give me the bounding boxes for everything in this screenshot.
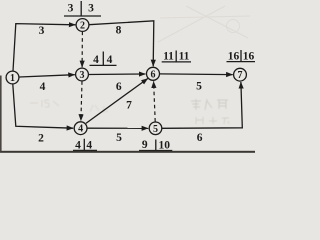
dummy dashed edge 5-6 bbox=[154, 81, 156, 121]
svg-text:4: 4 bbox=[107, 54, 113, 66]
wire edge 4-5 bbox=[87, 127, 148, 129]
svg-text:1: 1 bbox=[10, 73, 15, 84]
svg-text:5: 5 bbox=[153, 124, 158, 135]
dummy dashed edge 3-4 bbox=[81, 81, 82, 121]
node 7 bbox=[234, 68, 247, 81]
svg-text:16: 16 bbox=[243, 50, 255, 62]
time label 16|16 above node 7 bbox=[227, 50, 256, 62]
wire edge 1-3 bbox=[19, 75, 75, 77]
svg-text:4: 4 bbox=[93, 54, 99, 66]
svg-text:4: 4 bbox=[78, 124, 83, 135]
node 3 bbox=[76, 68, 89, 81]
svg-text:8: 8 bbox=[116, 25, 122, 37]
svg-text:6: 6 bbox=[116, 81, 122, 93]
wire edge 1-4 bbox=[13, 84, 73, 128]
left edge line bbox=[0, 76, 2, 152]
svg-text:5: 5 bbox=[196, 80, 202, 92]
svg-text:16: 16 bbox=[228, 50, 240, 62]
bleed-through faint circle bbox=[227, 20, 240, 33]
wire edge 6-7 bbox=[160, 73, 233, 76]
svg-text:7: 7 bbox=[238, 70, 243, 81]
svg-text:11: 11 bbox=[163, 51, 174, 63]
svg-text:11: 11 bbox=[179, 51, 190, 63]
svg-text:4: 4 bbox=[75, 140, 81, 152]
svg-text:4: 4 bbox=[40, 81, 46, 93]
node 2 bbox=[76, 19, 89, 32]
node 6 bbox=[147, 67, 160, 80]
paper background bbox=[0, 0, 255, 155]
bleed-through faint text row 1 bbox=[191, 99, 228, 110]
time label 4|4 right of node 3 bbox=[90, 52, 117, 66]
svg-text:6: 6 bbox=[197, 132, 203, 144]
bleed-through faint marks bottom-left bbox=[30, 100, 59, 107]
wire edge 3-6 bbox=[89, 73, 146, 76]
node 4 bbox=[74, 122, 87, 135]
bleed-through faint diagonal bbox=[158, 6, 250, 42]
svg-text:5: 5 bbox=[116, 132, 122, 144]
svg-text:9: 9 bbox=[142, 139, 148, 151]
wire edge 5-7 bbox=[162, 82, 242, 128]
svg-text:3: 3 bbox=[80, 70, 85, 81]
bleed-through faint text row 2 bbox=[196, 117, 229, 124]
wire edge 4-6 diagonal bbox=[86, 79, 148, 124]
time label 3|3 above node 2 bbox=[64, 1, 101, 16]
svg-text:6: 6 bbox=[151, 69, 156, 80]
svg-text:4: 4 bbox=[86, 140, 92, 152]
dummy dashed edge 2-3 bbox=[81, 32, 83, 68]
svg-text:10: 10 bbox=[159, 139, 171, 151]
svg-text:7: 7 bbox=[126, 100, 132, 112]
svg-text:2: 2 bbox=[38, 133, 44, 145]
bottom border band bbox=[0, 151, 255, 153]
wire edge 2-6 bbox=[89, 21, 154, 67]
time label 9|10 below node 5 bbox=[139, 139, 172, 152]
node 1 bbox=[6, 71, 19, 84]
svg-text:2: 2 bbox=[80, 21, 85, 32]
svg-text:3: 3 bbox=[88, 2, 94, 14]
svg-text:3: 3 bbox=[68, 2, 74, 14]
wire edge 1-2 bbox=[13, 24, 75, 71]
time label 4|4 below node 4 bbox=[73, 139, 97, 152]
svg-text:3: 3 bbox=[39, 25, 45, 37]
node 5 bbox=[149, 122, 162, 135]
time label 11|11 above node 6 bbox=[162, 51, 191, 63]
